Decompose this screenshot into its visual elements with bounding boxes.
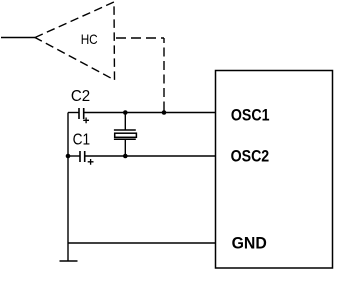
wire GND rail: [68, 242, 216, 244]
ground: [60, 260, 78, 262]
capacitor C1 polarity +: [88, 159, 94, 165]
wire input to inverter: [1, 37, 35, 39]
capacitor C2 plates: [79, 108, 84, 119]
wire inverter output horizontal (dashed): [116, 37, 164, 39]
svg-text:OSC2: OSC2: [231, 147, 270, 166]
junction OSC2 rail / left vertical: [66, 154, 71, 159]
svg-text:C1: C1: [73, 132, 91, 149]
crystal Y1: [114, 130, 136, 139]
capacitor C2 polarity +: [83, 118, 89, 124]
inverter U1 (dashed triangle): [35, 2, 115, 80]
wire OSC2 rail left of C1: [68, 155, 80, 157]
capacitor C1 plates: [80, 151, 85, 162]
junction crystal top / OSC1 rail: [123, 110, 128, 115]
svg-text:GND: GND: [232, 234, 267, 253]
svg-text:OSC1: OSC1: [231, 106, 270, 125]
wire left vertical bus: [67, 113, 69, 262]
wire inverter output vertical (dashed): [163, 38, 165, 111]
wire OSC2 rail right of C1: [85, 155, 215, 157]
IC U2 body: [216, 71, 333, 269]
wire crystal bottom lead: [124, 139, 126, 156]
svg-text:HC: HC: [81, 32, 98, 47]
wire OSC1 rail left of C2: [68, 112, 79, 114]
junction dashed line to OSC1 rail: [162, 110, 167, 115]
junction crystal bottom / OSC2 rail: [123, 154, 128, 159]
wire crystal top lead: [124, 113, 126, 131]
svg-text:C2: C2: [71, 88, 90, 105]
wire OSC1 rail right of C2: [84, 112, 215, 114]
